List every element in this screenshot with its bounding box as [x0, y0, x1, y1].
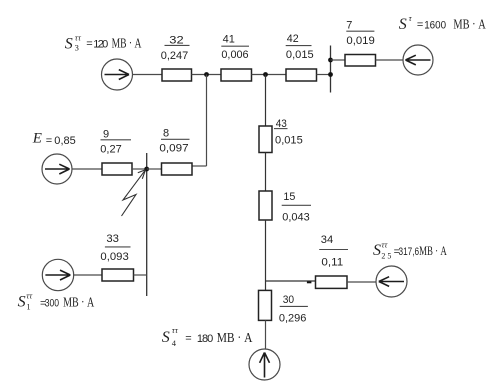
svg-text:=: = — [86, 38, 92, 50]
svg-text:1600: 1600 — [424, 19, 446, 31]
fault lightning arrow — [122, 170, 146, 216]
resistor 15 — [259, 191, 272, 220]
generator S1 — [42, 259, 73, 290]
wire R34 to S25 — [347, 281, 376, 283]
label 30/0,296 — [279, 294, 308, 324]
svg-text:120: 120 — [93, 38, 108, 50]
svg-text:2 5: 2 5 — [381, 251, 391, 260]
label S3 = 120 MVA — [65, 33, 142, 53]
svg-text:E: E — [32, 130, 42, 146]
node on bus (R42) — [328, 72, 333, 77]
svg-text:3: 3 — [75, 42, 79, 52]
label 33/0,093 — [100, 233, 130, 263]
svg-text:30: 30 — [283, 294, 294, 306]
svg-text:300: 300 — [45, 297, 59, 309]
resistor 34 — [316, 276, 348, 288]
svg-text:15: 15 — [283, 191, 295, 203]
svg-text:0,015: 0,015 — [286, 49, 314, 61]
svg-text:9: 9 — [103, 128, 109, 140]
svg-text:0,11: 0,11 — [321, 256, 343, 268]
label 8/0,097 — [159, 127, 189, 154]
label S25 = 317,6 MVA — [373, 239, 447, 260]
label 41/0,006 — [221, 34, 249, 61]
bus bar vertical — [330, 46, 332, 93]
wire node A down — [206, 75, 208, 167]
svg-text:34: 34 — [321, 234, 333, 246]
svg-text:317,6: 317,6 — [399, 246, 420, 258]
label 9/0,27 — [100, 128, 131, 155]
label S4 = 180 MVA — [162, 325, 253, 348]
wire S3 to R32 — [133, 74, 163, 76]
svg-text:МВ · А: МВ · А — [419, 243, 447, 258]
svg-text:S: S — [18, 294, 26, 311]
generator S3 — [102, 59, 133, 90]
wire S1 to R33 — [73, 274, 102, 276]
generator E — [42, 154, 72, 184]
svg-text:180: 180 — [197, 333, 213, 345]
svg-text:ττ: ττ — [75, 33, 82, 43]
system source S^t — [403, 45, 433, 75]
generator S4 — [249, 349, 280, 380]
svg-text:МВ · А: МВ · А — [63, 296, 95, 311]
svg-text:S: S — [65, 35, 73, 52]
wire bus to R7 — [331, 59, 346, 61]
svg-text:0,093: 0,093 — [100, 251, 128, 263]
svg-text:42: 42 — [287, 33, 299, 45]
wire R30 to S4 — [265, 320, 267, 349]
label 32/0,247 — [161, 34, 190, 62]
svg-text:0,296: 0,296 — [279, 312, 307, 324]
svg-text:S: S — [162, 329, 170, 346]
svg-text:1: 1 — [26, 302, 30, 312]
resistor 41 — [221, 69, 252, 81]
fault node dot — [144, 167, 149, 172]
source S25 — [376, 266, 407, 297]
node A junction dot — [204, 72, 209, 77]
fault branch vertical line — [146, 153, 148, 296]
svg-text:0,27: 0,27 — [100, 143, 121, 155]
resistor 30 — [259, 290, 272, 320]
svg-text:S: S — [373, 242, 381, 259]
label 43/0,015 — [274, 118, 303, 146]
wire R43 to R15 — [265, 153, 267, 191]
label S1 = 300 MVA — [18, 291, 95, 312]
wire corner to R8 — [192, 165, 207, 167]
wire R32 to node A — [192, 74, 222, 76]
resistor 43 — [259, 126, 272, 153]
resistor 33 — [102, 269, 134, 281]
svg-text:4: 4 — [172, 338, 177, 348]
label S^t = 1600 MVA — [399, 13, 487, 33]
resistor 32 — [162, 69, 192, 81]
label E = 0,85 — [32, 130, 76, 146]
svg-text:S: S — [399, 16, 407, 33]
svg-text:=: = — [185, 333, 191, 345]
svg-text:МВ · А: МВ · А — [112, 37, 142, 52]
wire R42 to bus — [317, 74, 331, 76]
svg-text:МВ · А: МВ · А — [453, 18, 486, 33]
label 7/0,019 — [346, 19, 375, 47]
svg-text:ττ: ττ — [172, 325, 179, 335]
svg-text:ττ: ττ — [381, 239, 388, 249]
svg-text:МВ · А: МВ · А — [217, 331, 253, 346]
svg-text:0,043: 0,043 — [282, 212, 309, 224]
svg-text:0,006: 0,006 — [221, 49, 248, 61]
node B junction dot — [263, 72, 268, 77]
wire E to R9 — [72, 168, 102, 170]
wire R9 to fault node — [132, 168, 147, 170]
wire T junction to R34 — [266, 280, 316, 282]
junction dash before R34 — [307, 281, 312, 283]
wire R7 to system source — [376, 59, 404, 61]
resistor 7 — [345, 55, 376, 67]
wire R15 down to T junction — [265, 220, 267, 291]
wire R33 to fault line — [134, 274, 147, 276]
svg-text:41: 41 — [223, 34, 235, 46]
svg-text:7: 7 — [346, 19, 352, 31]
svg-text:0,097: 0,097 — [159, 142, 188, 154]
wire fault node to R8 — [147, 168, 162, 170]
svg-text:0,015: 0,015 — [275, 134, 303, 146]
wire R41 to node B — [252, 74, 287, 76]
label 15/0,043 — [282, 191, 311, 223]
svg-text:ττ: ττ — [26, 291, 33, 301]
svg-text:0,85: 0,85 — [54, 135, 76, 147]
resistor 42 — [286, 69, 317, 81]
svg-text:33: 33 — [106, 233, 119, 245]
label 42/0,015 — [286, 33, 314, 61]
svg-text:32: 32 — [169, 34, 183, 46]
svg-text:8: 8 — [163, 127, 169, 139]
svg-text:=: = — [46, 135, 52, 147]
wire node B down to R43 — [265, 75, 267, 127]
resistor 9 — [102, 163, 132, 175]
svg-text:=: = — [417, 19, 423, 31]
resistor 8 — [162, 163, 193, 175]
label 34/0,11 — [319, 234, 348, 268]
node on bus (R7) — [328, 58, 333, 63]
svg-text:0,019: 0,019 — [346, 35, 374, 47]
svg-text:0,247: 0,247 — [161, 50, 189, 62]
